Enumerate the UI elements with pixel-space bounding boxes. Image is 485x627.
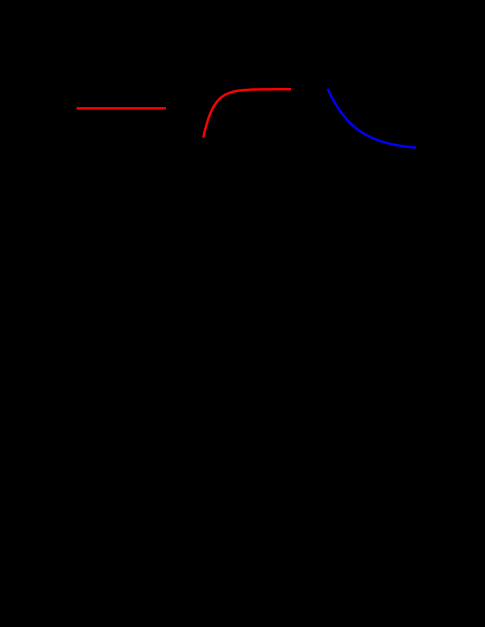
blue decaying curve segment (right branch) [328, 89, 416, 148]
red flat curve segment (left branch) [77, 107, 166, 109]
red rising curve segment (middle branch) [203, 89, 291, 137]
